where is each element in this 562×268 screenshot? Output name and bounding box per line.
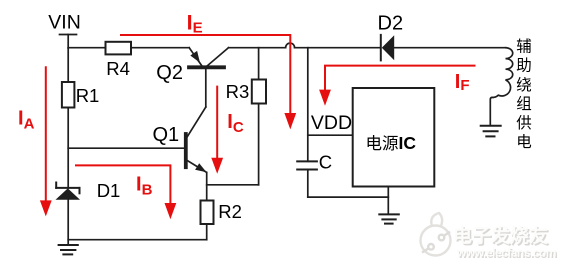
wire Q2 collector to hop: [229, 47, 286, 49]
svg-text:Q2: Q2: [156, 62, 183, 84]
wire VIN to node: [67, 35, 69, 49]
resistor R2 body: [201, 201, 214, 225]
transistor Q2 emitter diagonal: [189, 48, 201, 66]
ground IC bar3: [385, 223, 393, 225]
svg-text:R2: R2: [218, 201, 242, 222]
zener D1 cathode bar: [56, 187, 79, 189]
zener D1 right tick: [79, 188, 81, 193]
IC U1 power-supply IC box: [353, 88, 435, 187]
zener D1 triangle: [56, 188, 81, 199]
watermark elecfans text: [453, 224, 556, 260]
wire Q1 collector to Q2 base: [205, 69, 207, 107]
wire R2 to bottom rail: [206, 224, 208, 240]
svg-text:C: C: [319, 152, 332, 173]
svg-text:供: 供: [516, 114, 532, 132]
ground left bar1: [59, 244, 78, 246]
svg-text:Q1: Q1: [153, 124, 180, 146]
diode D2 triangle: [382, 35, 394, 60]
resistor R1 body: [62, 82, 75, 108]
resistor R4 body: [106, 42, 132, 55]
svg-text:D2: D2: [378, 12, 404, 34]
label 辅助绕组供电 vertical column: [516, 38, 532, 152]
wire R3 top: [258, 48, 260, 80]
wire R4 to Q2 emitter: [131, 47, 189, 49]
wire hop over IE arrow: [286, 43, 295, 48]
watermark elecfans text shadow: [455, 226, 558, 261]
wire Q1 emitter down: [206, 173, 208, 201]
wire winding to ground: [490, 97, 493, 125]
svg-text:组: 组: [516, 95, 532, 113]
current IB path line: [75, 165, 170, 203]
svg-text:D1: D1: [97, 180, 121, 201]
wire node to R4: [68, 47, 105, 49]
ground IC bar2: [382, 218, 395, 220]
node VDD feed: wire down from top rail: [307, 48, 309, 162]
current IF arrowhead: [319, 90, 331, 106]
current IF path line: [325, 66, 476, 90]
wire C to IC ground stem: [308, 196, 389, 198]
wire R3 bottom: [258, 104, 260, 185]
wire hop to D2: [295, 47, 380, 49]
current IE path line: [120, 35, 290, 114]
svg-text:VIN: VIN: [48, 12, 81, 34]
wire node to R1: [67, 48, 69, 82]
transistor Q2 emitter arrowhead: [190, 51, 200, 63]
current IC arrowhead: [211, 158, 223, 174]
current IA line: [45, 66, 47, 201]
transistor Q1 base bar: [184, 134, 188, 167]
transistor Q1 collector diagonal: [187, 107, 206, 137]
VIN terminal bar: [60, 34, 77, 36]
transistor Q1 emitter arrowhead: [195, 163, 206, 172]
wire emitter node to R3 bottom: [207, 184, 259, 186]
zener D1 left tick: [55, 183, 57, 188]
ground left bar2: [61, 249, 75, 251]
wire D1 to bottom rail: [67, 200, 69, 245]
watermark elecfans logo: [421, 213, 451, 256]
current IB arrowhead: [165, 203, 177, 219]
svg-text:绕: 绕: [516, 76, 532, 94]
transistor Q1 emitter diagonal: [187, 161, 206, 173]
diode D2 cathode bar: [380, 35, 382, 61]
transistor Q2 base bar: [189, 65, 224, 69]
ground winding bar3: [486, 135, 494, 137]
svg-text:助: 助: [516, 57, 532, 75]
svg-text:电源IC: 电源IC: [366, 133, 417, 153]
svg-text:电: 电: [516, 133, 532, 151]
svg-text:电子发烧友: 电子发烧友: [453, 224, 548, 247]
svg-text:R1: R1: [76, 85, 100, 106]
wire D2 to winding: [394, 47, 506, 49]
ground IC bar1: [379, 213, 399, 215]
wire bottom rail: [68, 239, 207, 241]
wire VDD pin into IC: [308, 134, 353, 136]
ground left bar3: [63, 253, 72, 255]
capacitor C bottom plate: [297, 169, 317, 171]
ground winding bar1: [481, 125, 501, 127]
wire IC ground stem: [387, 187, 389, 215]
wire node to Q1 base: [68, 147, 184, 149]
current IA arrowhead: [40, 200, 52, 216]
svg-text:R3: R3: [226, 81, 250, 102]
current IE arrowhead: [284, 113, 296, 129]
ground winding bar2: [484, 130, 498, 132]
transistor Q2 collector diagonal: [208, 48, 229, 66]
svg-text:VDD: VDD: [311, 112, 352, 134]
svg-text:www.elecfans.com: www.elecfans.com: [456, 246, 556, 260]
svg-text:辅: 辅: [516, 38, 532, 56]
resistor R3 body: [252, 80, 266, 104]
capacitor C top plate: [297, 160, 317, 162]
current IC line: [216, 86, 218, 159]
wire C bottom lead: [307, 170, 309, 198]
inductor auxiliary winding coil: [493, 48, 513, 98]
wire R1 to D1: [67, 108, 69, 189]
svg-text:R4: R4: [106, 58, 130, 79]
